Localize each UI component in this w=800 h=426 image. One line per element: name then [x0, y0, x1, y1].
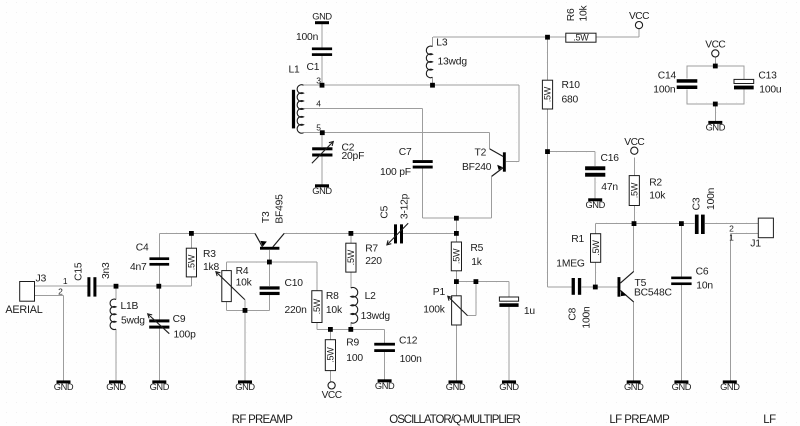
- svg-text:L1: L1: [289, 65, 301, 76]
- resistor R10 680: [542, 80, 580, 109]
- resistor R7 220: [346, 243, 382, 272]
- wire J3 pin 2 to GND: [35, 296, 64, 381]
- wire T3 collector line: [284, 232, 456, 234]
- wire aerial input line: [35, 285, 192, 287]
- svg-text:100n: 100n: [653, 85, 676, 96]
- capacitor C14 100n: [653, 70, 697, 95]
- wire L1 pin5 to T2 collector: [304, 133, 490, 149]
- ground GND below C2: [312, 184, 332, 196]
- wire C4 to input line: [158, 266, 160, 287]
- wire C8 to T5 base: [581, 286, 617, 288]
- svg-text:R2: R2: [649, 178, 662, 189]
- vcc terminal top: [629, 11, 649, 29]
- svg-text:3-12p: 3-12p: [400, 193, 411, 219]
- resistor R2 10k: [629, 176, 666, 206]
- ground GND decoupling block: [706, 121, 726, 132]
- svg-text:GND: GND: [235, 382, 255, 392]
- svg-text:20pF: 20pF: [342, 151, 365, 162]
- svg-text:R4: R4: [236, 266, 249, 277]
- wire C6 column: [680, 224, 682, 381]
- wire base bias line: [226, 262, 317, 291]
- capacitor C8 100n: [567, 278, 592, 329]
- wire GND to C1 to pin3: [321, 24, 323, 85]
- capacitor C2 20pF trimmer: [312, 142, 364, 164]
- svg-text:100n: 100n: [581, 306, 592, 329]
- connector J3: [5, 273, 67, 317]
- svg-text:1u: 1u: [524, 306, 536, 317]
- capacitor C11 1u: [499, 297, 535, 317]
- ground GND below C11: [499, 380, 519, 392]
- wire L3 stubs: [432, 37, 434, 85]
- svg-text:10k: 10k: [649, 191, 666, 202]
- svg-text:GND: GND: [585, 200, 605, 210]
- svg-text:.5W: .5W: [312, 298, 322, 314]
- svg-text:R5: R5: [470, 243, 483, 254]
- wire C11 column: [508, 282, 510, 381]
- wire R1 column: [595, 224, 597, 287]
- wire C7 to T2 emitter node: [423, 169, 492, 219]
- svg-text:C1: C1: [307, 62, 320, 73]
- svg-text:R6: R6: [566, 8, 577, 21]
- svg-text:C8: C8: [567, 307, 578, 320]
- svg-text:GND: GND: [672, 382, 692, 392]
- transistor T5 BC548C: [618, 271, 673, 302]
- wire P1 column: [455, 282, 457, 381]
- svg-text:LF PREAMP: LF PREAMP: [609, 414, 670, 426]
- svg-text:C14: C14: [658, 70, 677, 81]
- wire T3 base stub: [268, 250, 270, 286]
- svg-text:C9: C9: [173, 314, 186, 325]
- svg-text:J3: J3: [36, 273, 47, 285]
- svg-text:GND: GND: [706, 122, 726, 132]
- svg-text:.5W: .5W: [630, 182, 640, 198]
- wire R3 column: [190, 233, 192, 286]
- svg-text:100: 100: [346, 353, 363, 364]
- svg-text:VCC: VCC: [322, 390, 342, 401]
- svg-text:OSCILLATOR/Q-MULTIPLIER: OSCILLATOR/Q-MULTIPLIER: [389, 414, 520, 426]
- capacitor C1 100n: [296, 32, 332, 73]
- svg-text:GND: GND: [446, 382, 466, 392]
- wire emitter line: [317, 323, 385, 330]
- resistor R9 100: [325, 338, 363, 371]
- inductor L2: [351, 288, 391, 324]
- ground GND below P1: [446, 380, 466, 392]
- ground GND below L1B: [106, 380, 126, 392]
- svg-text:100u: 100u: [759, 85, 782, 96]
- svg-text:1: 1: [729, 232, 734, 242]
- wire VCC to R2 to node: [633, 158, 635, 224]
- svg-text:10k: 10k: [326, 305, 343, 316]
- wire T5 emitter to GND: [633, 302, 635, 380]
- ground GND below J3 pin2: [54, 380, 74, 392]
- wire L1 pin4 to C7: [304, 108, 423, 160]
- wire T5 collector up: [633, 224, 635, 272]
- ground GND below C12: [375, 379, 395, 391]
- svg-text:T2: T2: [475, 147, 487, 158]
- inductor L3: [426, 38, 467, 78]
- wire oscillator node: [455, 218, 457, 281]
- svg-text:13wdg: 13wdg: [361, 311, 391, 322]
- wire C4 corner to T3 emitter: [159, 233, 255, 257]
- svg-text:GND: GND: [624, 382, 644, 392]
- svg-text:.5W: .5W: [591, 240, 601, 256]
- svg-text:10k: 10k: [236, 277, 253, 288]
- svg-text:C15: C15: [73, 262, 84, 281]
- svg-text:GND: GND: [54, 382, 74, 392]
- svg-text:VCC: VCC: [705, 40, 725, 51]
- wire VCC block: [687, 57, 744, 121]
- svg-text:T3: T3: [261, 211, 272, 223]
- resistor R1 1MEG: [556, 234, 601, 270]
- svg-text:3n3: 3n3: [101, 262, 112, 279]
- svg-text:100 pF: 100 pF: [380, 167, 411, 178]
- wire P1 wiper: [468, 282, 476, 316]
- capacitor C12 100n: [374, 336, 422, 365]
- svg-text:4n7: 4n7: [130, 262, 147, 273]
- ground GND below R4: [235, 380, 255, 392]
- svg-text:R10: R10: [562, 80, 581, 91]
- svg-text:C4: C4: [136, 242, 149, 253]
- svg-text:100k: 100k: [423, 305, 446, 316]
- svg-text:1: 1: [63, 276, 68, 286]
- svg-text:BC548C: BC548C: [634, 288, 672, 299]
- capacitor C7 100pF: [380, 147, 433, 178]
- ground GND below C16: [585, 198, 605, 210]
- inductor L1B: [110, 299, 145, 329]
- wire L1 pin3 to T2 base node: [304, 85, 519, 161]
- svg-text:RF PREAMP: RF PREAMP: [232, 414, 293, 426]
- svg-text:R7: R7: [365, 243, 378, 254]
- wire J1 pin 1 to GND: [730, 233, 758, 380]
- svg-text:C13: C13: [758, 70, 777, 81]
- vcc terminal below R9: [322, 382, 342, 401]
- svg-text:.5W: .5W: [326, 347, 336, 363]
- section label RF PREAMP: [232, 414, 293, 426]
- svg-text:.5W: .5W: [452, 248, 462, 264]
- svg-text:2: 2: [58, 287, 63, 297]
- wire R5 bottom line: [456, 281, 509, 283]
- svg-text:L2: L2: [365, 291, 377, 302]
- capacitor C4 4n7: [130, 242, 169, 273]
- svg-text:AERIAL: AERIAL: [5, 304, 42, 316]
- svg-text:BF240: BF240: [462, 162, 492, 173]
- svg-text:.5W: .5W: [543, 86, 553, 102]
- wire LF collector node line: [596, 223, 695, 225]
- capacitor C3 100n: [692, 187, 718, 234]
- svg-text:VCC: VCC: [629, 11, 649, 22]
- capacitor C5 3-12p: [380, 193, 411, 245]
- svg-text:100p: 100p: [174, 329, 197, 340]
- section label LF PREAMP: [609, 414, 670, 426]
- resistor R6 10k: [566, 4, 596, 42]
- wire C9 column: [158, 286, 160, 380]
- svg-text:.5W: .5W: [573, 32, 589, 42]
- svg-text:GND: GND: [499, 382, 519, 392]
- svg-text:R9: R9: [346, 338, 359, 349]
- svg-text:GND: GND: [720, 382, 740, 392]
- wire pin5 to C2 to GND: [321, 133, 323, 185]
- svg-text:C16: C16: [601, 153, 620, 164]
- connector J1: [729, 218, 773, 250]
- svg-text:C6: C6: [696, 267, 709, 278]
- potentiometer R4 10k: [216, 266, 253, 310]
- svg-text:C7: C7: [399, 147, 412, 158]
- svg-text:R1: R1: [571, 234, 584, 245]
- svg-text:P1: P1: [433, 287, 446, 298]
- capacitor C6 10n: [671, 267, 713, 292]
- ground GND below C6: [672, 380, 692, 392]
- inductor L1: [289, 65, 322, 134]
- svg-text:10k: 10k: [579, 4, 590, 21]
- svg-text:4: 4: [316, 98, 321, 108]
- wire L1B column: [115, 286, 117, 380]
- svg-text:13wdg: 13wdg: [438, 57, 468, 68]
- wire C12 column: [384, 329, 386, 379]
- svg-text:C10: C10: [285, 278, 304, 289]
- svg-text:47n: 47n: [601, 182, 618, 193]
- svg-text:L3: L3: [436, 38, 448, 49]
- svg-text:.5W: .5W: [346, 249, 356, 265]
- section label OSCILLATOR/Q-MULTIPLIER: [389, 414, 520, 426]
- wire node to C16 to GND: [548, 152, 596, 199]
- svg-text:J1: J1: [750, 238, 761, 250]
- svg-text:LF: LF: [763, 414, 776, 426]
- resistor R8 10k: [312, 291, 343, 323]
- svg-text:10n: 10n: [696, 281, 713, 292]
- section label LF: [763, 414, 776, 426]
- svg-text:GND: GND: [312, 186, 332, 196]
- capacitor C10 220n: [260, 278, 307, 316]
- resistor R3 1k8: [186, 248, 219, 277]
- svg-text:680: 680: [562, 94, 579, 105]
- svg-text:GND: GND: [375, 381, 395, 391]
- vcc terminal above R2: [624, 137, 644, 154]
- svg-text:VCC: VCC: [624, 137, 644, 148]
- wire R10 column: [548, 37, 572, 287]
- ground GND below T5: [624, 380, 644, 392]
- svg-text:R8: R8: [326, 291, 339, 302]
- wire junction dots: [114, 35, 718, 332]
- svg-text:100n: 100n: [706, 187, 717, 210]
- capacitor C16 47n: [585, 153, 619, 193]
- svg-text:100n: 100n: [296, 32, 319, 43]
- svg-text:GND: GND: [312, 12, 332, 22]
- transistor T3 BF495: [255, 194, 285, 250]
- svg-text:C12: C12: [399, 336, 418, 347]
- svg-text:.5W: .5W: [187, 254, 197, 270]
- capacitor C13 100u: [734, 70, 782, 95]
- svg-text:1MEG: 1MEG: [556, 258, 585, 269]
- svg-text:GND: GND: [106, 382, 126, 392]
- svg-text:100n: 100n: [400, 354, 423, 365]
- svg-text:BF495: BF495: [274, 194, 285, 224]
- svg-text:GND: GND: [150, 382, 170, 392]
- svg-text:220: 220: [365, 256, 382, 267]
- svg-text:220n: 220n: [285, 305, 308, 316]
- wire R4 C10 bottom line: [226, 295, 269, 380]
- svg-text:C3: C3: [692, 197, 703, 210]
- transistor T2 BF240: [462, 147, 519, 176]
- capacitor C9 100p: [148, 314, 196, 341]
- svg-text:R3: R3: [203, 249, 216, 260]
- svg-text:L1B: L1B: [121, 301, 139, 312]
- vcc terminal decoupling block: [705, 40, 725, 58]
- ground GND top of C1: [312, 12, 332, 25]
- wire C3 to J1 pin 2: [705, 223, 758, 225]
- potentiometer P1 100k: [423, 287, 467, 325]
- resistor R5 1k: [451, 242, 483, 271]
- capacitor C15 3n3: [73, 262, 112, 297]
- wire VCC rail top: [433, 29, 639, 38]
- svg-text:1k: 1k: [471, 257, 483, 268]
- svg-text:5wdg: 5wdg: [121, 315, 145, 326]
- wire R9 to VCC: [329, 329, 331, 381]
- svg-text:C5: C5: [380, 205, 391, 218]
- ground GND below J1: [720, 380, 740, 392]
- wire R7 L2 column: [350, 233, 352, 329]
- ground GND below C9: [150, 380, 170, 392]
